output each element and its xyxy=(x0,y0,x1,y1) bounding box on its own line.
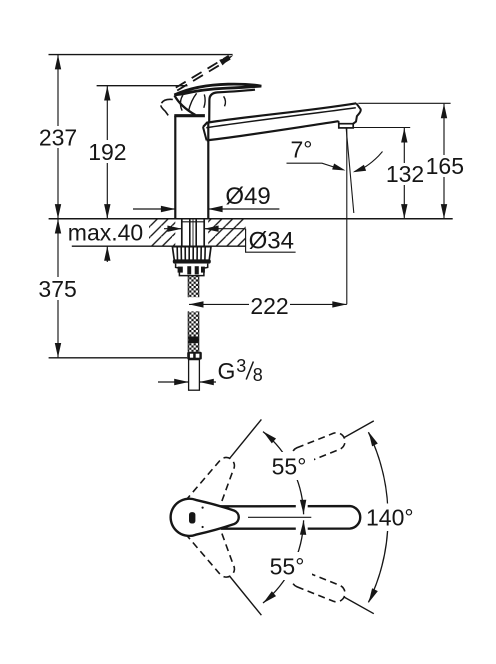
svg-text:3: 3 xyxy=(236,356,246,376)
svg-text:8: 8 xyxy=(253,365,263,385)
svg-text:G: G xyxy=(218,358,236,384)
svg-text:max.40: max.40 xyxy=(68,219,143,245)
svg-text:Ø49: Ø49 xyxy=(225,183,270,210)
svg-text:165: 165 xyxy=(426,153,464,179)
svg-text:132: 132 xyxy=(386,161,424,187)
svg-text:Ø34: Ø34 xyxy=(249,228,294,255)
svg-text:375: 375 xyxy=(38,276,76,302)
svg-text:140°: 140° xyxy=(366,504,414,530)
svg-text:222: 222 xyxy=(250,293,288,319)
svg-text:7°: 7° xyxy=(291,137,313,163)
svg-text:55°: 55° xyxy=(272,453,307,479)
svg-text:55°: 55° xyxy=(270,553,305,579)
svg-text:237: 237 xyxy=(39,124,77,150)
svg-text:192: 192 xyxy=(88,139,126,165)
